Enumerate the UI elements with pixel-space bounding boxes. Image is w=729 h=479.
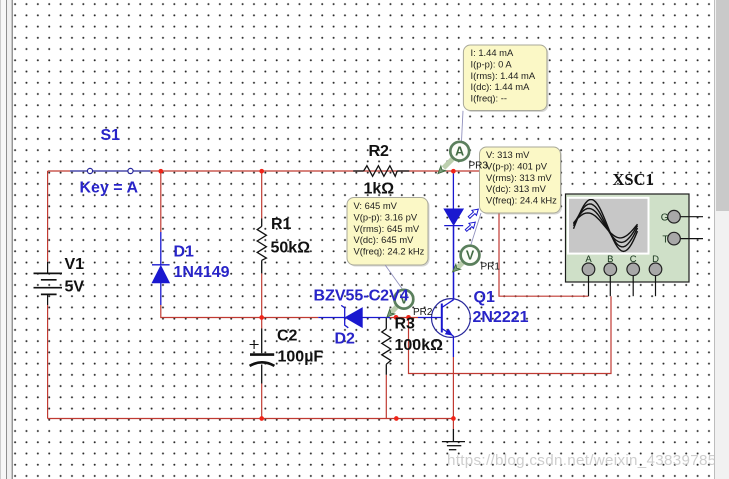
svg-text:50kΩ: 50kΩ: [271, 239, 311, 256]
leader box1 to probe PR3: [462, 111, 464, 141]
svg-text:I(dc): 1.44 mA: I(dc): 1.44 mA: [471, 81, 531, 92]
oscilloscope terminal D: [649, 254, 662, 296]
svg-text:A: A: [455, 145, 464, 159]
svg-text:V(p-p): 401 pV: V(p-p): 401 pV: [486, 160, 548, 171]
wire C2 bottom: [261, 384, 263, 419]
svg-text:T: T: [662, 234, 668, 245]
probe PR1 voltmeter: [450, 246, 479, 275]
junction node J5: [394, 315, 399, 320]
wire C2 top: [261, 318, 263, 329]
ground: [442, 429, 465, 450]
oscilloscope terminal T: [662, 232, 703, 245]
svg-text:XSC1: XSC1: [613, 170, 654, 189]
wire D2 to Q1 base: [390, 317, 418, 319]
svg-text:Key = A: Key = A: [80, 180, 139, 197]
svg-text:V(dc): 645 mV: V(dc): 645 mV: [354, 234, 415, 245]
svg-text:PR1: PR1: [481, 261, 501, 272]
svg-text:100µF: 100µF: [278, 348, 324, 365]
leader box3 to probe PR2: [385, 265, 402, 289]
resistor R3 100k: [382, 318, 391, 375]
svg-text:D2: D2: [335, 330, 356, 347]
svg-text:D1: D1: [174, 244, 195, 261]
LED emission arrows: [464, 207, 481, 233]
wire ground stem red part: [452, 419, 454, 430]
wire D1 top: [160, 171, 162, 232]
svg-text:C: C: [630, 254, 637, 265]
svg-text:I(rms): 1.44 mA: I(rms): 1.44 mA: [471, 70, 536, 81]
junction node J4: [259, 315, 264, 320]
measurement box PR2 voltage: [347, 198, 428, 266]
svg-text:1kΩ: 1kΩ: [364, 180, 395, 197]
svg-text:A: A: [585, 254, 592, 265]
oscilloscope terminal C: [627, 254, 640, 296]
svg-text:V: 645 mV: V: 645 mV: [354, 200, 398, 211]
wire top rail from battery to switch: [48, 170, 70, 172]
resistor R2 1k: [353, 166, 409, 177]
svg-text:V1: V1: [65, 256, 85, 273]
wire battery positive vertical: [47, 171, 49, 262]
svg-text:1N4149: 1N4149: [174, 264, 230, 281]
resistor R1 50k: [257, 219, 266, 274]
wire bottom rail: [48, 418, 454, 420]
svg-text:PR2: PR2: [413, 307, 433, 318]
oscilloscope screen: [568, 198, 649, 254]
diode D1 1N4149: [152, 232, 170, 305]
measurement box PR1 voltage shadow: [481, 149, 562, 215]
junction node J7: [259, 416, 264, 421]
measurement box PR1 voltage: [480, 147, 561, 213]
switch S1: [70, 168, 151, 173]
svg-text:V: 313 mV: V: 313 mV: [486, 149, 530, 160]
svg-text:C2: C2: [277, 328, 298, 345]
junction node J6: [406, 315, 411, 320]
svg-text:R2: R2: [369, 143, 390, 160]
leader box2 to probe PR1: [471, 213, 481, 245]
oscilloscope XSC1 body: [566, 194, 690, 282]
probe PR2 voltmeter: [385, 290, 414, 320]
svg-text:R3: R3: [395, 316, 416, 333]
wire R3 bottom: [385, 375, 387, 419]
svg-text:R1: R1: [271, 216, 292, 233]
wire Q1 emitter to ground rail: [452, 357, 454, 419]
svg-text:I: 1.44 mA: I: 1.44 mA: [471, 47, 514, 58]
svg-text:G: G: [661, 212, 669, 223]
measurement box PR3 current: [463, 45, 547, 111]
svg-text:BZV55-C2V4: BZV55-C2V4: [314, 287, 409, 304]
svg-text:V(rms): 645 mV: V(rms): 645 mV: [354, 223, 420, 234]
transistor Q1 2N2221: [418, 226, 470, 357]
svg-text:PR3: PR3: [469, 160, 489, 171]
svg-text:V(p-p): 3.16 pV: V(p-p): 3.16 pV: [354, 211, 418, 222]
svg-text:5V: 5V: [65, 279, 85, 296]
right scrollbar: [714, 0, 729, 479]
measurement box PR2 voltage shadow: [349, 199, 430, 267]
oscilloscope terminal B: [604, 254, 617, 296]
svg-text:100kΩ: 100kΩ: [395, 337, 444, 354]
svg-text:V(freq): 24.2 kHz: V(freq): 24.2 kHz: [354, 246, 425, 257]
battery V1: [34, 262, 63, 305]
wire D1 bottom to mid rail: [161, 305, 262, 318]
wire battery negative to bottom rail: [47, 305, 49, 419]
junction node J8: [394, 416, 399, 421]
capacitor C2 100uF: [250, 329, 275, 384]
LED D3: [444, 174, 463, 300]
wire node D down and right to scope channel A: [499, 171, 589, 296]
zener diode D2 BZV55-C2V4: [318, 305, 390, 327]
svg-text:S1: S1: [101, 127, 121, 144]
junction node J3: [451, 169, 456, 174]
svg-text:I(freq): --: I(freq): --: [471, 93, 507, 104]
svg-text:V(rms): 313 mV: V(rms): 313 mV: [486, 172, 552, 183]
junction node J1: [158, 169, 163, 174]
oscilloscope terminal G: [661, 210, 703, 223]
svg-text:V(dc): 313 mV: V(dc): 313 mV: [486, 183, 547, 194]
svg-text:2N2221: 2N2221: [473, 309, 529, 326]
svg-text:V(freq): 24.4 kHz: V(freq): 24.4 kHz: [486, 195, 557, 206]
watermark: [447, 452, 716, 469]
measurement box PR3 current shadow: [465, 47, 549, 113]
oscilloscope terminal A: [582, 254, 595, 296]
wire top rail from switch to node D: [151, 170, 500, 172]
wire mid rail C2 to D2: [262, 317, 319, 319]
junction node J9: [451, 416, 456, 421]
probe PR3 ammeter: [436, 142, 470, 176]
junction node J2: [259, 169, 264, 174]
svg-text:B: B: [607, 254, 613, 265]
svg-text:Q1: Q1: [474, 289, 495, 306]
wire base node to scope channel B: [409, 296, 612, 373]
wire R1 top: [261, 171, 263, 219]
svg-text:D: D: [652, 254, 659, 265]
svg-text:V: V: [466, 248, 475, 262]
wire R1 bottom: [261, 273, 263, 317]
svg-text:I(p-p): 0 A: I(p-p): 0 A: [471, 58, 513, 69]
